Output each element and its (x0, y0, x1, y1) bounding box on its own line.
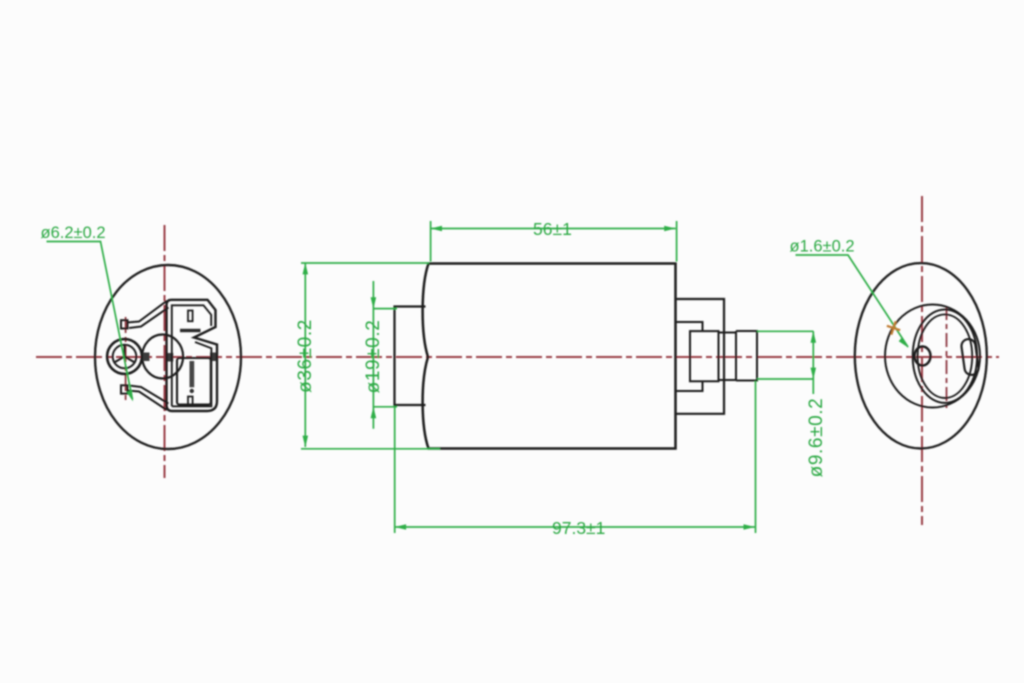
top arm to housing (127, 301, 168, 328)
inner ring ellipse outer (913, 310, 977, 403)
arrow O19 top (371, 297, 377, 308)
right boss ellipse (885, 305, 980, 408)
svg-text:97.3±1: 97.3±1 (552, 518, 605, 538)
dim 56 extension left (430, 221, 432, 262)
left small hole vertical centerline (125, 317, 127, 401)
arrow leader O6.2 (127, 391, 134, 402)
dim 56 extension right (676, 221, 678, 262)
shoulder step top (676, 322, 703, 331)
svg-text:ø9.6±0.2: ø9.6±0.2 (806, 398, 827, 478)
tri-spoke in hole (115, 345, 135, 362)
dim 97.3 extension left (394, 406, 396, 533)
connector housing outer outline (167, 300, 218, 411)
bearing section (690, 331, 719, 381)
dim O19 extension bottom (373, 406, 397, 408)
top retainer tab (121, 320, 128, 328)
main horizontal centerline (36, 356, 999, 358)
left end cap (395, 307, 426, 406)
arrow 97.3 right (744, 524, 755, 530)
svg-text:ø19±0.2: ø19±0.2 (363, 320, 384, 394)
orange datum cross (885, 319, 903, 337)
pad on centerline left (143, 353, 150, 362)
arrow 56 left (431, 226, 442, 232)
dim O19 line (372, 281, 374, 429)
pad on centerline mid (167, 353, 174, 362)
right view vertical centerline (921, 196, 923, 525)
bottom arm to housing (127, 386, 168, 411)
housing bottom small tab (188, 397, 193, 405)
right view outer ellipse (855, 263, 987, 448)
housing lower inner rect (177, 358, 211, 405)
right bracket plate (676, 299, 725, 414)
dim 97.3 extension right (755, 381, 757, 533)
leader O6.2 underline (47, 242, 133, 400)
housing inner thick bar (190, 361, 195, 387)
housing top small tab (188, 311, 193, 322)
arrow 56 right (664, 226, 675, 232)
arrow O9.6 top (811, 331, 817, 342)
housing slot bar (180, 329, 201, 332)
pad on centerline right (210, 353, 217, 362)
main body outline (423, 264, 676, 449)
arrow O36 top (303, 263, 309, 274)
shaft hole circle (915, 347, 931, 366)
left view outer ellipse (95, 265, 241, 449)
shoulder step bottom (676, 382, 703, 392)
bottom retainer tab (121, 385, 128, 393)
inner ring ellipse inner (918, 314, 973, 398)
arrow O19 bottom (371, 407, 377, 418)
left view vertical centerline (164, 225, 166, 478)
collar section (719, 331, 737, 381)
dim O9.6 extension bottom (757, 378, 814, 380)
dim O19 extension top (373, 308, 397, 310)
dim 56 line (431, 228, 676, 230)
leader O1.6 underline (796, 255, 909, 347)
svg-text:ø36±0.2: ø36±0.2 (295, 319, 316, 393)
arrow leader O1.6 (899, 337, 909, 348)
housing bar dot (190, 389, 194, 393)
dim O36 line (304, 263, 306, 447)
arrow 97.3 left (395, 524, 406, 530)
connector housing inner contour (172, 305, 212, 406)
D-slot capsule (961, 338, 980, 376)
hole O6.2 inner circle (113, 345, 137, 369)
dim 97.3 line (395, 526, 755, 528)
svg-text:ø1.6±0.2: ø1.6±0.2 (790, 238, 855, 256)
shaft bushing (736, 331, 757, 381)
dim O36 extension bottom (301, 448, 440, 450)
hole O6.2 outer circle (107, 339, 142, 374)
svg-text:ø6.2±0.2: ø6.2±0.2 (41, 224, 106, 242)
green arrowheads (127, 226, 909, 530)
middle shaft circle (142, 335, 183, 379)
right boss vertical centerline (946, 306, 948, 408)
svg-text:56±1: 56±1 (533, 219, 572, 239)
dim O36 extension top (301, 262, 429, 264)
arrow O9.6 bottom (811, 368, 817, 379)
dim O9.6 extension top (757, 330, 814, 332)
dim O9.6 line (812, 331, 814, 394)
arrow O36 bottom (303, 436, 309, 447)
